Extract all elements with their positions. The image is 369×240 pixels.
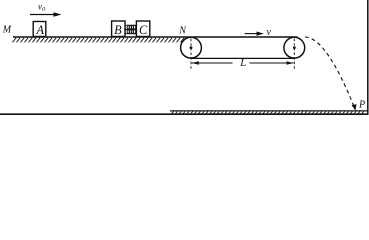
svg-text:A: A xyxy=(36,23,45,37)
pulley right circle xyxy=(284,37,305,58)
block A xyxy=(33,22,46,37)
wire table surface line xyxy=(13,36,298,38)
spring between B and C xyxy=(125,25,129,29)
lower ground hatching xyxy=(172,112,364,114)
svg-text:P: P xyxy=(358,99,365,110)
pulley left circle xyxy=(181,37,202,58)
svg-text:M: M xyxy=(2,24,12,35)
block C xyxy=(136,21,149,37)
dimension L line right segment xyxy=(250,62,294,64)
dashed trajectory curve xyxy=(305,37,355,109)
dashed center line left xyxy=(190,39,192,70)
border right line xyxy=(367,0,369,115)
dashed center line right xyxy=(293,39,295,70)
block B xyxy=(112,21,125,37)
table hatching xyxy=(13,38,185,43)
arrow v on belt xyxy=(245,33,261,35)
svg-text:C: C xyxy=(139,23,148,37)
arrow v0 xyxy=(30,14,58,16)
dimension L line left segment xyxy=(192,62,233,64)
trajectory arrowhead xyxy=(352,104,357,111)
svg-text:L: L xyxy=(239,58,246,69)
svg-text:B: B xyxy=(114,23,122,37)
wire belt bottom line xyxy=(191,57,294,59)
svg-text:v: v xyxy=(267,27,272,38)
wire lower ground line xyxy=(170,110,368,112)
svg-text:N: N xyxy=(178,26,187,37)
border bottom line xyxy=(0,113,368,115)
